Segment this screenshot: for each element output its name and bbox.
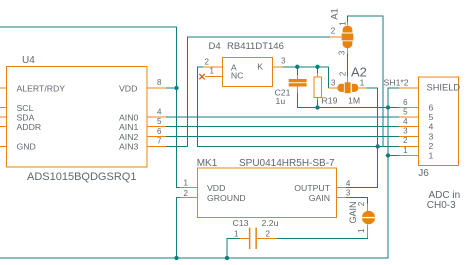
pin SCL stub — [0, 107, 7, 109]
svg-text:4: 4 — [403, 117, 408, 126]
svg-text:J6: J6 — [418, 168, 429, 179]
J6 pin 4 stub — [399, 126, 419, 128]
svg-text:ALERT/RDY: ALERT/RDY — [17, 84, 66, 94]
svg-text:2: 2 — [205, 57, 210, 66]
node J6 pin1 junction — [386, 153, 390, 157]
svg-text:2: 2 — [339, 71, 348, 76]
node VDD junction — [174, 86, 178, 90]
svg-text:SHIELD: SHIELD — [427, 83, 461, 93]
wire R19 bottom — [317, 100, 319, 108]
wire VDD net: top rail into U4 VDD and down to MK1 pin1 — [0, 27, 180, 187]
svg-text:2: 2 — [331, 27, 336, 36]
svg-text:1: 1 — [429, 151, 434, 161]
mic MK1 box — [197, 168, 336, 218]
node ground rail junction at C13 — [225, 256, 229, 260]
svg-text:RB411DT146: RB411DT146 — [227, 41, 284, 52]
svg-text:5: 5 — [429, 112, 434, 122]
pin GND stub — [0, 145, 7, 147]
svg-text:6: 6 — [157, 127, 162, 136]
diode D4 box — [223, 57, 273, 86]
svg-text:1: 1 — [357, 228, 366, 233]
pin AIN1 stub pin 5 — [147, 126, 166, 128]
wire AIN1 row to J6 pin4 — [166, 126, 399, 128]
svg-text:1M: 1M — [348, 95, 360, 105]
svg-text:1: 1 — [210, 67, 215, 76]
D4 pin 1 stub (NC) — [205, 75, 223, 77]
pin ALERT/RDY stub — [0, 87, 7, 89]
svg-text:1: 1 — [339, 21, 348, 26]
svg-text:4: 4 — [346, 179, 351, 188]
MK1 pin 4 stub — [337, 186, 347, 188]
svg-text:ADS1015BQDGSRQ1: ADS1015BQDGSRQ1 — [27, 171, 136, 183]
IC U4 box — [7, 66, 147, 167]
svg-text:3: 3 — [331, 79, 336, 88]
wire MK1 pin2 to ground rail — [177, 197, 181, 258]
svg-text:7: 7 — [157, 136, 162, 145]
pin AIN3 stub pin 7 — [147, 145, 166, 147]
node J6 pin6 junction — [386, 105, 390, 109]
svg-text:3: 3 — [281, 57, 286, 66]
node ground rail junction at MK1 — [174, 256, 178, 260]
svg-text:6: 6 — [429, 103, 434, 113]
ferrite filter A1 (vertical) — [343, 26, 353, 33]
wire J6 shield elbow, ground column, bottom rail — [0, 88, 399, 258]
solder jumper (GAIN) — [362, 211, 375, 217]
wire U4 VDD stub to junction — [166, 87, 177, 89]
svg-text:4: 4 — [157, 108, 162, 117]
svg-text:AIN2: AIN2 — [119, 132, 138, 142]
wire A1 pin3 to A2 pin2 — [347, 53, 349, 76]
J6 pin 6 stub — [399, 107, 419, 109]
wire A1 pin1 to shield column — [348, 16, 384, 146]
svg-text:1u: 1u — [276, 96, 286, 106]
capacitor C13 — [249, 228, 251, 249]
wire A2 pin1 down to MK1 OUTPUT — [346, 88, 378, 187]
resistor R19 — [314, 77, 322, 98]
svg-text:GROUND: GROUND — [207, 193, 246, 203]
node D4/C21 junction — [295, 65, 299, 69]
svg-text:2: 2 — [357, 201, 366, 206]
MK1 pin 3 stub — [337, 196, 347, 198]
wire AIN2 row to J6 pin3 — [166, 135, 399, 137]
svg-text:4: 4 — [429, 122, 434, 132]
svg-text:1: 1 — [403, 146, 408, 155]
MK1 pin 2 stub — [180, 196, 197, 198]
svg-text:2: 2 — [429, 141, 434, 151]
svg-text:A1: A1 — [330, 8, 341, 20]
wire AIN3 up to A1 pin2 — [166, 37, 329, 146]
wire D4 pin3 to A2 pin3 — [282, 67, 328, 88]
A2 pin stubs — [328, 77, 366, 89]
J6 pin 5 stub — [399, 116, 419, 118]
wire D4 pin2 down to J6 pin2 row — [198, 67, 399, 147]
wire MK1 GAIN pin3 to jumper pin2 — [346, 197, 367, 204]
svg-text:1: 1 — [184, 178, 189, 187]
svg-text:A2: A2 — [351, 64, 367, 79]
node OUTPUT to J6 pin2 row junction — [376, 144, 380, 148]
svg-text:3: 3 — [403, 127, 408, 136]
ferrite filter A2 (horizontal) — [337, 84, 343, 92]
svg-text:K: K — [257, 62, 263, 72]
svg-text:VDD: VDD — [207, 183, 225, 193]
pin AIN0 stub pin 4 — [147, 116, 166, 118]
pin ADDR stub — [0, 126, 7, 128]
svg-text:CH0-3: CH0-3 — [427, 200, 456, 211]
svg-text:MK1: MK1 — [197, 158, 218, 169]
wire C21 top — [296, 67, 298, 75]
svg-text:3: 3 — [338, 50, 347, 55]
svg-text:D4: D4 — [209, 41, 221, 52]
svg-text:SDA: SDA — [17, 113, 35, 123]
D4 pin 3 stub — [273, 66, 283, 68]
node D4/R19 junction — [315, 65, 319, 69]
J6 pin 2 stub — [399, 145, 419, 147]
no-connect cross on D4 pin 1 — [199, 74, 204, 79]
D4 pin 2 stub — [203, 66, 223, 68]
wire AIN0 row to J6 pin5 — [166, 116, 399, 118]
svg-text:2: 2 — [184, 189, 189, 198]
svg-text:VDD: VDD — [119, 84, 137, 94]
svg-text:GAIN: GAIN — [309, 193, 330, 203]
svg-text:NC: NC — [231, 70, 244, 80]
node R19 bottom junction — [315, 105, 319, 109]
svg-text:SH1*2: SH1*2 — [384, 78, 409, 88]
svg-text:ADDR: ADDR — [17, 122, 42, 132]
svg-text:OUTPUT: OUTPUT — [294, 183, 330, 193]
J6 pin 1 stub — [399, 155, 419, 157]
wire C13 pin2 to GAIN jumper pin1 — [277, 237, 367, 238]
A1 pin stubs — [329, 22, 347, 54]
svg-text:2: 2 — [403, 136, 408, 145]
svg-text:1: 1 — [360, 79, 365, 88]
svg-text:C13: C13 — [233, 218, 249, 228]
svg-text:U4: U4 — [22, 55, 35, 66]
capacitor C21 — [289, 79, 307, 82]
svg-text:3: 3 — [346, 188, 351, 197]
svg-text:R19: R19 — [322, 95, 338, 105]
svg-text:2: 2 — [266, 230, 271, 239]
svg-text:1: 1 — [234, 230, 239, 239]
svg-text:AIN3: AIN3 — [119, 141, 138, 151]
svg-text:5: 5 — [157, 117, 162, 126]
svg-text:AIN1: AIN1 — [119, 122, 138, 132]
svg-text:AIN0: AIN0 — [119, 113, 138, 123]
svg-text:2.2u: 2.2u — [262, 218, 279, 228]
svg-text:SPU0414HR5H-SB-7: SPU0414HR5H-SB-7 — [239, 158, 335, 169]
svg-text:6: 6 — [403, 98, 408, 107]
wire C21 bottom to ground row — [297, 93, 388, 108]
pin SDA stub — [0, 116, 7, 118]
svg-text:3: 3 — [429, 131, 434, 141]
svg-text:SCL: SCL — [17, 103, 34, 113]
J6 SHIELD pin stub — [399, 87, 419, 89]
pin AIN2 stub pin 6 — [147, 135, 166, 137]
wire C13 pin1 to ground rail — [227, 238, 240, 258]
J6 pin 3 stub — [399, 135, 419, 137]
wire R19 top — [317, 67, 319, 73]
connector J6 box — [418, 77, 458, 165]
svg-text:8: 8 — [157, 78, 162, 87]
jumper pin stubs — [366, 204, 368, 237]
svg-text:GND: GND — [17, 141, 36, 151]
MK1 pin 1 stub — [180, 186, 197, 188]
svg-text:5: 5 — [403, 107, 408, 116]
pin VDD stub pin 8 — [147, 87, 166, 89]
svg-text:GAIN: GAIN — [348, 201, 358, 223]
